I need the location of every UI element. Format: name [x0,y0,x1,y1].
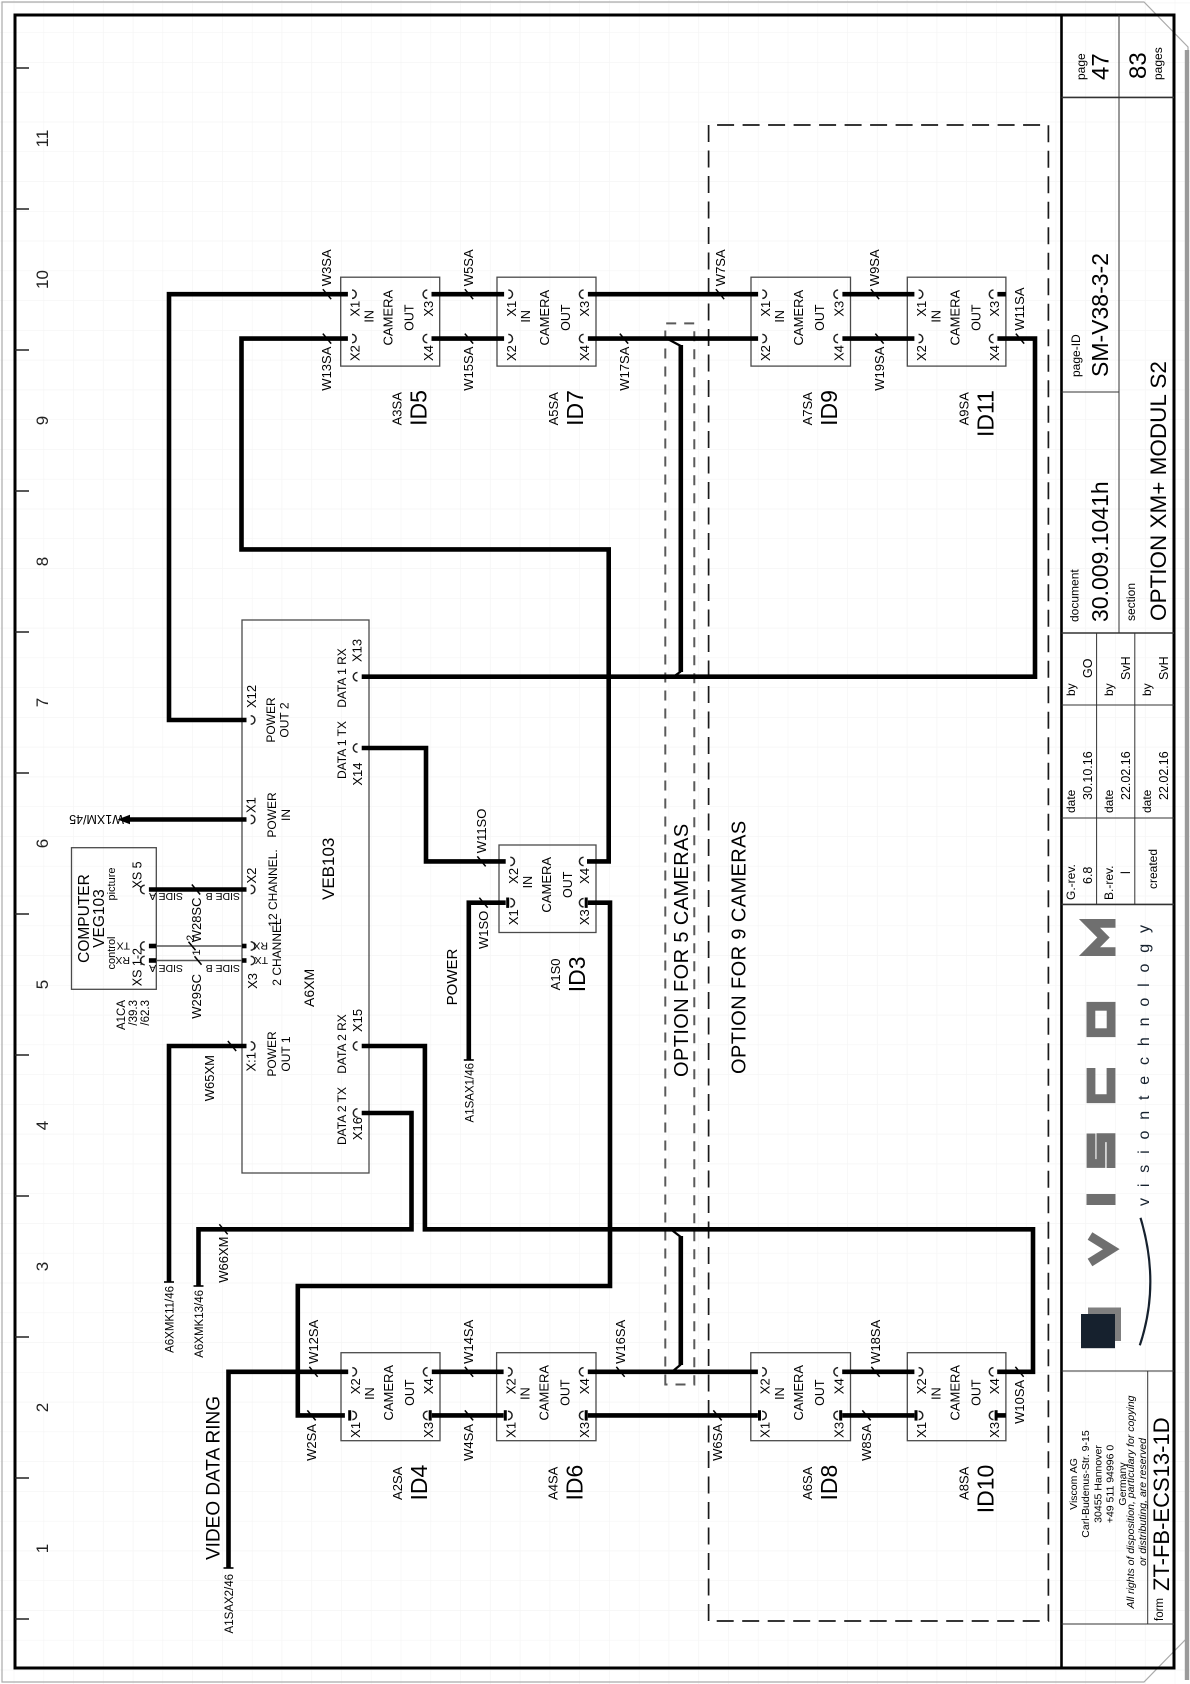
svg-text:11: 11 [33,130,52,148]
wire W14SA (ID4 X4 -> ID6 X2) [432,1370,504,1375]
wire W65XM (VEB X:1 -> A6XMK11/46) [169,1046,247,1282]
svg-text:W19SA: W19SA [872,346,887,390]
svg-text:X1: X1 [914,301,929,317]
svg-text:TX: TX [117,940,130,952]
svg-text:picture: picture [106,867,118,900]
svg-text:X2: X2 [758,345,773,361]
svg-text:IN: IN [519,1387,533,1400]
svg-text:GO: GO [1081,658,1095,678]
svg-text:22.02.16: 22.02.16 [1119,751,1133,800]
svg-text:page: page [1074,53,1088,80]
5-camera option link (X15 wire -> ID8.X2 wire) [678,1236,683,1365]
svg-text:X1: X1 [914,1422,929,1438]
camera ID6 (A4SA) [497,1353,596,1501]
svg-text:X4: X4 [987,345,1002,361]
VEB pin X14 DATA 1 TX [353,744,357,752]
svg-text:2: 2 [33,1403,52,1412]
svg-text:CAMERA: CAMERA [791,1365,806,1421]
svg-text:ID6: ID6 [562,1465,588,1501]
svg-text:W7SA: W7SA [713,249,728,286]
svg-text:22.02.16: 22.02.16 [1157,751,1171,800]
svg-text:A5SA: A5SA [546,392,561,426]
dashed box: OPTION FOR 5 CAMERAS [665,323,694,1384]
svg-text:OUT 1: OUT 1 [279,1036,293,1071]
svg-text:VEB103: VEB103 [319,838,338,900]
wires W29SC (computer XS1-2 <-> VEB X3 RX/TX) [149,944,156,949]
svg-text:or distributing, are reserved: or distributing, are reserved [1137,1437,1149,1566]
viscom logo square [1088,1308,1121,1342]
svg-text:A1SAX2/46: A1SAX2/46 [224,1574,236,1633]
svg-text:CAMERA: CAMERA [791,290,806,346]
svg-text:ID11: ID11 [972,390,998,437]
svg-text:X1: X1 [348,1422,363,1438]
svg-text:ID10: ID10 [972,1465,998,1514]
svg-text:A8SA: A8SA [956,1466,971,1500]
svg-text:W8SA: W8SA [859,1424,874,1461]
svg-text:OUT: OUT [403,304,417,331]
VEB pin X2 12 CHANNEL [251,885,255,893]
svg-text:X2: X2 [348,345,363,361]
svg-text:X1: X1 [506,909,521,925]
svg-text:X2: X2 [504,345,519,361]
svg-text:/62.3: /62.3 [140,1000,152,1026]
svg-text:OPTION FOR 5 CAMERAS: OPTION FOR 5 CAMERAS [671,823,693,1077]
svg-text:6.8: 6.8 [1081,867,1095,884]
svg-text:A7SA: A7SA [800,392,815,426]
camera ID3 (A1S0) [499,845,596,992]
svg-text:X2: X2 [914,1378,929,1394]
wire W7SA (ID7 X3 -> ID9 X1) [588,292,758,297]
title block dividers [1062,1623,1175,1625]
svg-text:X3: X3 [577,301,592,317]
svg-text:A1S0: A1S0 [548,959,563,991]
svg-text:OUT 2: OUT 2 [278,702,292,737]
title block outline [1060,15,1063,1668]
svg-text:OUT: OUT [969,1379,983,1406]
svg-text:X3: X3 [987,1422,1002,1438]
svg-text:page-ID: page-ID [1069,334,1083,377]
svg-text:SIDE A: SIDE A [149,962,183,974]
svg-text:SvH: SvH [1119,656,1133,680]
svg-text:XS 1-2: XS 1-2 [131,948,145,986]
svg-text:X3: X3 [421,1422,436,1438]
svg-text:W16SA: W16SA [613,1319,628,1363]
svg-text:X4: X4 [577,345,592,361]
svg-text:TX: TX [255,954,268,966]
camera ID8 (A6SA) [751,1353,851,1501]
svg-text:IN: IN [929,310,943,323]
svg-text:X2: X2 [244,868,259,884]
VEB pin X1 POWER IN [251,815,255,823]
svg-text:W14SA: W14SA [461,1319,476,1363]
svg-text:30.10.16: 30.10.16 [1081,751,1095,800]
svg-text:X4: X4 [421,1378,436,1394]
svg-text:date: date [1140,789,1154,813]
svg-text:CAMERA: CAMERA [537,1365,552,1421]
wire W13SA (ID3 X4 -> ID5 X2) [242,339,609,862]
dashed box: OPTION FOR 9 CAMERAS [709,125,1049,1621]
svg-text:4: 4 [33,1121,52,1130]
svg-text:form: form [1154,1598,1166,1621]
svg-text:X3: X3 [577,909,592,925]
wire W18SA (ID8 X4 -> ID10 X2) [842,1370,914,1375]
svg-text:X2: X2 [506,868,521,884]
svg-text:10: 10 [33,270,52,289]
svg-text:X1: X1 [244,797,259,813]
wire W19SA (ID9 X4 -> ID11 X2) [842,336,914,341]
svg-text:W5SA: W5SA [461,249,476,286]
svg-text:47: 47 [1088,53,1115,80]
svg-text:X2: X2 [914,345,929,361]
svg-text:1: 1 [191,949,203,955]
svg-text:All rights of disposition, par: All rights of disposition, particulary f… [1125,1395,1137,1609]
svg-text:CAMERA: CAMERA [381,290,396,346]
svg-text:X2: X2 [503,1378,518,1394]
svg-text:OUT: OUT [813,304,827,331]
svg-text:W11SO: W11SO [474,809,489,854]
stub ID11 X3 [997,292,1006,297]
svg-text:W6SA: W6SA [710,1424,725,1461]
svg-text:SIDE A: SIDE A [149,890,183,902]
svg-text:IN: IN [279,809,293,821]
svg-text:W9SA: W9SA [867,249,882,286]
svg-text:12 CHANNEL.: 12 CHANNEL. [266,849,280,926]
svg-text:X3: X3 [832,301,847,317]
wire W9SA (ID9 X3 -> ID11 X1) [842,292,914,297]
wire W2SA (ID3 X3 -> ID4 X1) [298,903,610,1416]
svg-text:X3: X3 [245,973,260,989]
svg-text:DATA 2 TX: DATA 2 TX [335,1087,349,1145]
wire VIDEO DATA RING (A1SAX2/46 -> ID4 X2) W12SA [229,1372,349,1568]
svg-text:X4: X4 [987,1378,1002,1394]
svg-text:X1: X1 [758,1422,773,1438]
camera ID5 (A3SA) [341,277,440,426]
svg-text:CAMERA: CAMERA [539,857,554,913]
svg-text:Carl-Budenus-Str. 9-15: Carl-Budenus-Str. 9-15 [1080,1430,1092,1538]
wire W1SO POWER (ID3 X1 -> A1SAX1/46) [469,903,506,1060]
svg-text:7: 7 [33,698,52,707]
svg-text:by: by [1064,683,1078,696]
svg-text:POWER: POWER [265,792,279,838]
camera ID9 (A7SA) [751,277,851,426]
svg-text:POWER: POWER [264,697,278,743]
svg-text:POWER: POWER [444,949,461,1006]
svg-text:W10SA: W10SA [1012,1379,1027,1423]
camera ID7 (A5SA) [497,277,596,426]
svg-text:section: section [1124,583,1138,621]
svg-text:W13SA: W13SA [319,346,334,390]
svg-text:X3: X3 [832,1422,847,1438]
svg-text:date: date [1064,789,1078,813]
svg-text:A3SA: A3SA [390,392,405,426]
svg-text:OUT: OUT [559,1379,573,1406]
svg-text:X4: X4 [832,1378,847,1394]
svg-text:IN: IN [929,1387,943,1400]
svg-text:A2SA: A2SA [390,1466,405,1500]
svg-text:created: created [1146,849,1160,889]
svg-text:IN: IN [363,1387,377,1400]
svg-text:OUT: OUT [813,1379,827,1406]
svg-text:IN: IN [773,1387,787,1400]
svg-text:A9SA: A9SA [956,392,971,426]
svg-text:X4: X4 [421,345,436,361]
wire W11SA (ID11 X4 -> VEB X13 return) [362,339,1035,677]
wire W15SA (ID5 X4 -> ID7 X2) [432,336,505,341]
svg-text:X1: X1 [503,1422,518,1438]
ruler scale 1-11 [15,68,29,1619]
svg-text:CAMERA: CAMERA [947,290,962,346]
svg-text:A6XMK13/46: A6XMK13/46 [194,1290,206,1358]
svg-text:ZT-FB-ECS13-1D: ZT-FB-ECS13-1D [1149,1417,1174,1591]
svg-text:W65XM: W65XM [202,1055,217,1101]
svg-text:B.-rev.: B.-rev. [1102,866,1116,900]
svg-text:VIDEO DATA RING: VIDEO DATA RING [204,1396,225,1560]
svg-text:X13: X13 [350,639,365,662]
wire W17SA (ID7 X4 -> ID9 X2) [588,336,758,341]
VEB pins RX/TX 2 CHANNEL (X3) [251,942,255,950]
camera ID10 (A8SA) [907,1353,1006,1514]
svg-text:W12SA: W12SA [306,1319,321,1363]
svg-text:X3: X3 [987,301,1002,317]
svg-text:A6XMK11/46: A6XMK11/46 [165,1286,177,1353]
svg-text:W18SA: W18SA [868,1319,883,1363]
svg-text:OPTION XM+ MODUL S2: OPTION XM+ MODUL S2 [1146,361,1171,621]
svg-text:6: 6 [33,839,52,848]
svg-text:OPTION FOR 9 CAMERAS: OPTION FOR 9 CAMERAS [729,820,751,1074]
svg-text:1: 1 [33,1544,52,1553]
svg-text:X14: X14 [350,763,365,786]
camera ID11 (A9SA) [907,277,1006,437]
svg-text:IN: IN [363,310,377,323]
svg-text:W1XM/45: W1XM/45 [69,812,124,826]
svg-text:CAMERA: CAMERA [537,290,552,346]
svg-text:l: l [1119,871,1133,874]
svg-text:ID9: ID9 [816,390,842,426]
svg-text:ID5: ID5 [406,390,432,426]
svg-text:W15SA: W15SA [461,346,476,390]
svg-text:SIDE B: SIDE B [206,962,240,974]
svg-text:CAMERA: CAMERA [947,1365,962,1421]
svg-text:X1: X1 [348,301,363,317]
svg-text:+49 511 94996 0: +49 511 94996 0 [1105,1445,1117,1524]
computer VEG103 (A1CA) [72,848,157,990]
svg-text:CAMERA: CAMERA [381,1365,396,1421]
svg-text:document: document [1068,569,1082,622]
svg-text:/39.3: /39.3 [128,1000,140,1026]
svg-text:X4: X4 [832,345,847,361]
svg-text:W29SC: W29SC [189,974,204,1019]
svg-text:OUT: OUT [969,304,983,331]
svg-text:RX: RX [253,940,268,952]
viscom logo letters [1090,1236,1111,1263]
svg-text:X3: X3 [421,301,436,317]
svg-text:by: by [1102,683,1116,696]
scan edge shading [1185,50,1189,1680]
svg-text:A1CA: A1CA [116,1000,128,1030]
svg-text:X4: X4 [577,868,592,884]
wire W6SA (ID6 X3 -> ID8 X1) [588,1413,758,1418]
interface box VEB103 (A6XM) [242,620,369,1173]
svg-text:2 CHANNEL: 2 CHANNEL [270,918,284,986]
svg-text:POWER: POWER [265,1031,279,1077]
VEB pin X:1 POWER OUT 1 [251,1042,255,1050]
wire W8SA (ID8 X3 -> ID10 X1) [842,1413,914,1418]
svg-text:X1: X1 [758,301,773,317]
wire W66XM (VEB X16 -> A6XMK13/46) [199,1113,412,1286]
svg-text:SvH: SvH [1157,656,1171,680]
wire W16SA (ID6 X4 -> ID8 X2) [588,1370,758,1375]
svg-text:A4SA: A4SA [546,1466,561,1500]
viscom swoosh [1140,1218,1151,1346]
svg-text:SM-V38-3-2: SM-V38-3-2 [1087,253,1113,377]
svg-text:3: 3 [33,1262,52,1271]
svg-text:X15: X15 [350,1009,365,1032]
svg-text:pages: pages [1151,47,1165,80]
wire W5SA (ID5 X3 -> ID7 X1) [432,292,505,297]
svg-text:5: 5 [33,980,52,989]
svg-text:W11SA: W11SA [1012,287,1027,330]
VEB pin X13 DATA 1 RX [353,673,357,681]
svg-text:A1SAX1/46: A1SAX1/46 [464,1063,476,1122]
VEB pin X15 DATA 2 RX [353,1042,357,1050]
VEB pin X12 POWER OUT 2 [251,716,255,724]
svg-text:SIDE B: SIDE B [206,890,240,902]
svg-text:30455 Hannover: 30455 Hannover [1092,1445,1104,1523]
svg-text:X3: X3 [577,1422,592,1438]
VEB pin X16 DATA 2 TX [353,1109,357,1117]
wire W4SA (ID4 X3 -> ID6 X1) [432,1413,504,1418]
computer pin XS 5 picture [141,885,145,893]
svg-text:X1: X1 [504,301,519,317]
svg-text:8: 8 [33,557,52,566]
svg-text:ID3: ID3 [564,957,590,993]
svg-text:X2: X2 [348,1378,363,1394]
computer pins XS 1-2 control [141,942,145,950]
svg-text:A6XM: A6XM [301,969,317,1007]
svg-text:DATA 1 TX: DATA 1 TX [335,721,349,779]
svg-text:W66XM: W66XM [216,1237,231,1283]
svg-text:OUT: OUT [403,1379,417,1406]
svg-text:v i s i o n t e c h n o l o: v i s i o n t e c h n o l o g y [1136,922,1153,1206]
wire W28SC (computer XS5 -> VEB X2) [149,887,247,892]
svg-text:G.-rev.: G.-rev. [1064,864,1078,900]
svg-text:ID4: ID4 [406,1464,432,1500]
svg-text:W3SA: W3SA [319,249,334,286]
svg-text:by: by [1140,683,1154,696]
svg-text:X16: X16 [350,1117,365,1140]
svg-text:IN: IN [521,876,535,889]
svg-text:W2SA: W2SA [304,1424,319,1461]
svg-text:W1SO: W1SO [476,911,491,949]
svg-text:30.009.1041h: 30.009.1041h [1087,481,1113,622]
svg-text:X12: X12 [244,685,259,708]
wire W3SA (VEB X12 -> ID5 X1) [169,294,348,720]
wire W1XM/45 (VEB X1 POWER IN) [130,817,247,822]
camera ID4 (A2SA) [341,1353,440,1501]
svg-text:A6SA: A6SA [800,1466,815,1500]
svg-text:OUT: OUT [559,304,573,331]
svg-text:ID7: ID7 [562,390,588,426]
svg-text:W17SA: W17SA [617,346,632,390]
svg-text:Viscom AG: Viscom AG [1068,1458,1080,1510]
svg-text:DATA 1 RX: DATA 1 RX [335,648,349,708]
svg-text:X4: X4 [577,1378,592,1394]
svg-text:83: 83 [1125,52,1152,79]
wire W11SO (VEB X14 -> ID3 X2) [362,748,506,861]
svg-text:2: 2 [185,935,197,941]
svg-text:OUT: OUT [561,871,575,898]
svg-text:XS 5: XS 5 [131,861,145,888]
svg-text:IN: IN [519,310,533,323]
svg-text:ID8: ID8 [816,1465,842,1501]
svg-text:9: 9 [33,416,52,425]
wire W10SA (ID10 X4 -> VEB X15 return) [362,1046,1033,1372]
svg-text:X2: X2 [758,1378,773,1394]
5-camera option link (ID7.X4 wire -> X13 wire) [678,345,683,672]
svg-text:X:1: X:1 [244,1052,259,1072]
svg-text:control: control [106,936,118,969]
stub ID10 X3 [997,1413,1006,1418]
svg-text:W4SA: W4SA [461,1424,476,1461]
svg-text:IN: IN [773,310,787,323]
svg-text:DATA 2 RX: DATA 2 RX [335,1014,349,1074]
svg-text:date: date [1102,789,1116,813]
